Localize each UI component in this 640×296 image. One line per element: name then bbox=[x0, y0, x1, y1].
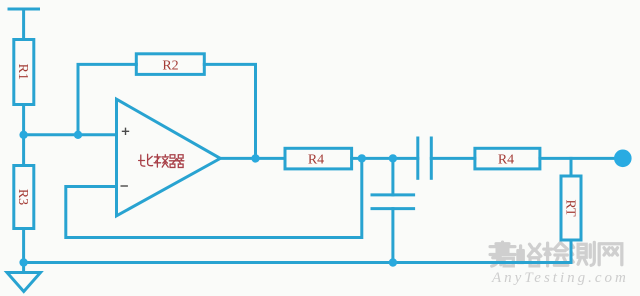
wire R2 to output node bbox=[204, 64, 255, 158]
op-amp U1 comparator bbox=[117, 99, 221, 216]
node junction ground left bbox=[19, 258, 27, 266]
capacitor C1 (series) bbox=[416, 138, 419, 178]
node junction C2 top bbox=[389, 154, 397, 162]
wire R1 to R3 bbox=[22, 105, 25, 166]
node junction output bbox=[251, 154, 259, 162]
wire R4 to output terminal bbox=[540, 157, 617, 160]
svg-text:R3: R3 bbox=[15, 189, 30, 205]
wire C2 to ground rail bbox=[391, 209, 394, 263]
node junction C2 bottom bbox=[389, 258, 397, 266]
wire node to C2 bbox=[391, 158, 394, 195]
wire terminal to R1 bbox=[22, 9, 25, 40]
svg-text:AnyTesting.com: AnyTesting.com bbox=[491, 270, 629, 286]
op-amp plus sign bbox=[121, 128, 130, 186]
svg-text:R2: R2 bbox=[162, 58, 178, 73]
output terminal dot bbox=[614, 150, 632, 168]
wire C1 to R4 (second) bbox=[431, 157, 475, 160]
VCC terminal bar bbox=[9, 8, 39, 11]
resistor R4 (second) bbox=[475, 148, 540, 169]
resistor R2 bbox=[136, 54, 204, 75]
resistor R1 bbox=[14, 40, 34, 105]
capacitor C2 (shunt) bbox=[372, 193, 414, 196]
wire RT to ground rail bbox=[570, 240, 573, 263]
wire feedback up to R2 bbox=[78, 64, 136, 134]
op-amp minus sign bbox=[121, 185, 128, 187]
node junction R1/R3 bbox=[19, 131, 27, 139]
wire node to RT bbox=[570, 158, 573, 176]
wire non-inverting input bbox=[24, 133, 117, 136]
wire R3 to ground rail bbox=[22, 229, 25, 263]
watermark 嘉峪检测网 bbox=[490, 242, 622, 266]
svg-text:R1: R1 bbox=[15, 64, 30, 80]
wire inverting input feedback bbox=[66, 158, 362, 237]
ground stub bbox=[22, 263, 25, 273]
resistor RT bbox=[561, 176, 581, 240]
svg-text:R4: R4 bbox=[498, 152, 514, 167]
svg-text:RT: RT bbox=[563, 199, 578, 216]
wire op-amp output bbox=[220, 157, 285, 160]
svg-text:R4: R4 bbox=[308, 152, 324, 167]
node junction feedback tap bbox=[74, 131, 82, 139]
resistor R3 bbox=[14, 166, 34, 229]
label 比较器 (comparator) bbox=[139, 154, 184, 167]
resistor R4 (first) bbox=[285, 148, 352, 169]
wire R4 to capacitor C1 bbox=[352, 157, 418, 160]
ground bbox=[7, 273, 41, 292]
node junction R4 right bbox=[358, 154, 366, 162]
bottom ground rail bbox=[24, 261, 571, 264]
